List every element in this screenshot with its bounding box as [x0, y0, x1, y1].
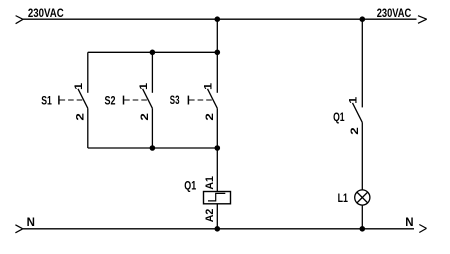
actuator bar S3 — [187, 96, 189, 105]
switch blade Q1 — [353, 103, 363, 123]
node: junction upper bus at S2 — [150, 50, 156, 56]
svg-text:2: 2 — [349, 127, 361, 135]
lamp cross stroke 1 — [357, 192, 368, 203]
switch blade S3 — [208, 89, 218, 109]
switch blade S2 — [143, 89, 153, 109]
wire: coil bottom lead A2 — [216, 204, 218, 229]
pushbutton S1 — [41, 52, 88, 148]
svg-text:1: 1 — [203, 83, 215, 90]
wire: lower link bus of pushbuttons — [88, 147, 218, 149]
lamp circle L1 — [355, 190, 370, 205]
actuator dashed link S3 — [189, 99, 212, 101]
wire: S3 top lead — [216, 52, 218, 93]
switch blade S1 — [78, 89, 88, 109]
wire: lamp bottom lead — [361, 205, 363, 229]
node: junction upper bus at S3 — [215, 50, 221, 56]
actuator bar S1 — [58, 96, 60, 105]
pushbutton S3 — [170, 52, 218, 148]
link arrow: bottom-left chevron — [15, 225, 22, 233]
node: junction on top rail at x=217 — [215, 16, 221, 22]
pushbutton S2 — [105, 52, 153, 148]
wire: top 230VAC rail — [23, 18, 417, 20]
svg-text:230VAC: 230VAC — [28, 8, 64, 20]
wire: S2 bottom lead — [151, 108, 153, 148]
svg-text:1: 1 — [138, 83, 150, 90]
svg-text:S3: S3 — [170, 95, 180, 107]
relay coil Q1 (impulse relay) — [184, 148, 230, 229]
lamp cross stroke 2 — [357, 192, 368, 203]
svg-text:A2: A2 — [204, 209, 216, 223]
lamp L1 — [338, 190, 370, 229]
svg-text:A1: A1 — [204, 176, 216, 190]
link arrow: bottom-right chevron — [419, 225, 426, 233]
actuator dashed link S1 — [60, 99, 83, 101]
wire: coil top lead A1 — [216, 148, 218, 192]
link arrow: top-right chevron — [418, 16, 427, 24]
svg-text:230VAC: 230VAC — [377, 8, 412, 20]
actuator bar S2 — [123, 96, 125, 105]
svg-text:Q1: Q1 — [184, 180, 196, 192]
svg-text:S1: S1 — [41, 95, 52, 107]
wire: upper link bus of pushbuttons — [88, 51, 218, 53]
relay contact Q1 (NO) — [333, 19, 362, 190]
wire: S2 top lead — [151, 52, 153, 93]
impulse step symbol inside coil — [208, 193, 225, 201]
node: junction lower bus at S3 — [215, 145, 221, 151]
node: junction lower bus at S2 — [150, 145, 156, 151]
wire: drop from top rail to parallel branch bus — [216, 19, 218, 52]
node: junction on top rail at lamp branch — [360, 16, 366, 22]
svg-text:N: N — [27, 217, 35, 229]
wire: contact top lead — [361, 19, 363, 107]
svg-text:1: 1 — [73, 83, 85, 90]
actuator dashed link S2 — [124, 99, 147, 101]
svg-text:2: 2 — [74, 113, 86, 121]
svg-text:2: 2 — [204, 113, 216, 121]
svg-text:S2: S2 — [105, 96, 116, 108]
wire: S1 bottom lead — [87, 108, 89, 148]
wire: S1 top lead — [87, 52, 89, 93]
wire: S3 bottom lead — [216, 108, 218, 148]
svg-text:Q1: Q1 — [333, 112, 345, 124]
svg-text:L1: L1 — [338, 193, 349, 205]
wire: contact bottom lead — [361, 122, 363, 189]
node: junction bottom rail at coil — [215, 226, 221, 232]
link arrow: top-left chevron — [16, 16, 23, 24]
svg-text:1: 1 — [348, 97, 360, 104]
coil body Q1 — [204, 192, 231, 204]
svg-text:2: 2 — [139, 113, 151, 121]
wire: bottom N rail — [23, 228, 414, 230]
node: junction bottom rail at lamp — [360, 226, 366, 232]
svg-text:N: N — [405, 217, 413, 229]
